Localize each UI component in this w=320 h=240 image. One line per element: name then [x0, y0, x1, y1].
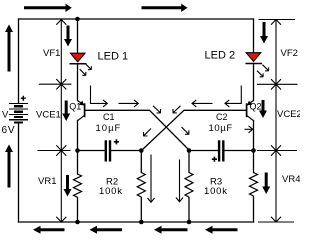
thin flow arrow diag down-right upper [153, 106, 161, 113]
node rail R1 [75, 220, 80, 225]
wire R2 leads [140, 151, 142, 173]
svg-text:VF2: VF2 [281, 48, 298, 59]
tick VCE2/VR4 [257, 150, 297, 152]
thin flow arrow L near Q1 [91, 86, 108, 107]
thick arrow VF2 down [260, 22, 268, 44]
wire top rail [19, 18, 254, 20]
wire Q1 base lead [85, 110, 189, 150]
svg-text:100k: 100k [99, 186, 123, 197]
node rail R3 [187, 220, 192, 225]
svg-text:100k: 100k [204, 186, 228, 197]
node rail R2 [139, 220, 144, 225]
node C2-R3 [187, 148, 192, 153]
wire C1 left [78, 150, 105, 152]
thin flow arrow beside R3 down [176, 160, 183, 202]
thin flow arrow beside R2 down [148, 155, 155, 203]
thin flow arrow diag down-left upper [173, 106, 181, 113]
wire R4 leads [253, 151, 255, 173]
wire R3 leads [188, 151, 190, 173]
thick arrow VCE1 down [62, 101, 70, 122]
thick arrow bottom 4 left [205, 226, 238, 234]
thick arrow far-left up top [5, 25, 13, 72]
VR1 dimension line [56, 151, 66, 223]
VCE1 dimension line [56, 84, 66, 150]
thin flow arrow left toward X (right side) [192, 100, 213, 107]
svg-text:Q1: Q1 [69, 101, 81, 111]
svg-text:V: V [2, 110, 9, 121]
LED 1 [70, 53, 92, 75]
transistor Q2 [247, 101, 254, 121]
svg-text:10µF: 10µF [96, 123, 122, 134]
svg-text:10µF: 10µF [209, 123, 233, 134]
thick arrow bottom 1 left [33, 226, 65, 234]
svg-text:VF1: VF1 [43, 48, 60, 59]
thin flow arrow L near Q2 [225, 86, 241, 107]
thick arrow far-left up bottom [5, 145, 13, 188]
wire left rail upper [18, 19, 20, 103]
svg-text:6V: 6V [2, 125, 16, 136]
resistor R3 100k [185, 173, 193, 198]
thick arrow VR4 down [262, 173, 270, 195]
wire bottom rail [19, 221, 254, 223]
resistor R2 100k [137, 173, 145, 198]
resistor R1 [74, 174, 82, 197]
thick arrow bottom 3 left [154, 226, 188, 234]
wire Q2 base lead [142, 110, 246, 150]
svg-text:VR4: VR4 [282, 174, 300, 185]
wire C2 right [224, 150, 253, 152]
VF1 dimension line [56, 20, 66, 85]
wire Q2 bottom to node [253, 121, 255, 151]
thick arrow VR1 down [64, 175, 72, 197]
battery V 6V [9, 96, 28, 124]
VR4 dimension line [271, 151, 281, 223]
thick arrow top-left right [5, 4, 270, 234]
tick VF1/VCE1 [39, 83, 72, 85]
svg-text:C2: C2 [216, 112, 228, 122]
thin flow arrow diag down-right lower [182, 127, 189, 134]
svg-text:Q2: Q2 [250, 102, 262, 112]
wire LED2 anode [253, 19, 255, 53]
thin flow arrow into Q2 [245, 126, 253, 133]
tick VR4 bottom [258, 221, 294, 223]
svg-text:VCE2: VCE2 [277, 109, 300, 120]
wire LED2 cathode to Q2 [253, 64, 255, 101]
tick VCE1/VR1 [38, 150, 71, 152]
node Q2-C2-R4 [251, 148, 256, 153]
tick VF2 top [259, 19, 296, 21]
thick arrow bottom 2 left [90, 226, 123, 234]
thick arrow top-middle right [142, 4, 188, 12]
svg-text:LED 2: LED 2 [205, 50, 236, 62]
svg-text:C1: C1 [103, 112, 115, 122]
LED 2 [246, 53, 269, 77]
node top rail / LED1 [75, 17, 80, 22]
node C1-R2 [139, 148, 144, 153]
wire left rail lower [18, 123, 20, 222]
resistor R4 [250, 173, 258, 196]
thick arrow VCE2 down [259, 100, 267, 118]
VCE2 dimension line [271, 84, 281, 150]
wire R1 leads [77, 151, 79, 175]
capacitor C2 [212, 140, 225, 162]
capacitor C1 [105, 139, 119, 161]
node Q1-C1-R1 [75, 148, 80, 153]
wire LED1 cathode to Q1 [77, 64, 79, 101]
thin flow arrow right toward X [119, 100, 139, 107]
VF2 dimension line [271, 20, 281, 85]
wire C1 right [111, 150, 141, 152]
transistor Q1 [78, 101, 85, 121]
tick VF2/VCE2 [257, 83, 298, 85]
wire LED1 anode [77, 19, 79, 53]
thick arrow VF1 down [64, 26, 72, 47]
svg-text:VR1: VR1 [38, 176, 56, 187]
wire C2 left [189, 150, 218, 152]
svg-text:LED 1: LED 1 [98, 51, 129, 63]
wire Q1 bottom to node [77, 121, 79, 151]
svg-text:VCE1: VCE1 [36, 110, 61, 121]
thin flow arrow diag down-left lower [144, 129, 152, 137]
